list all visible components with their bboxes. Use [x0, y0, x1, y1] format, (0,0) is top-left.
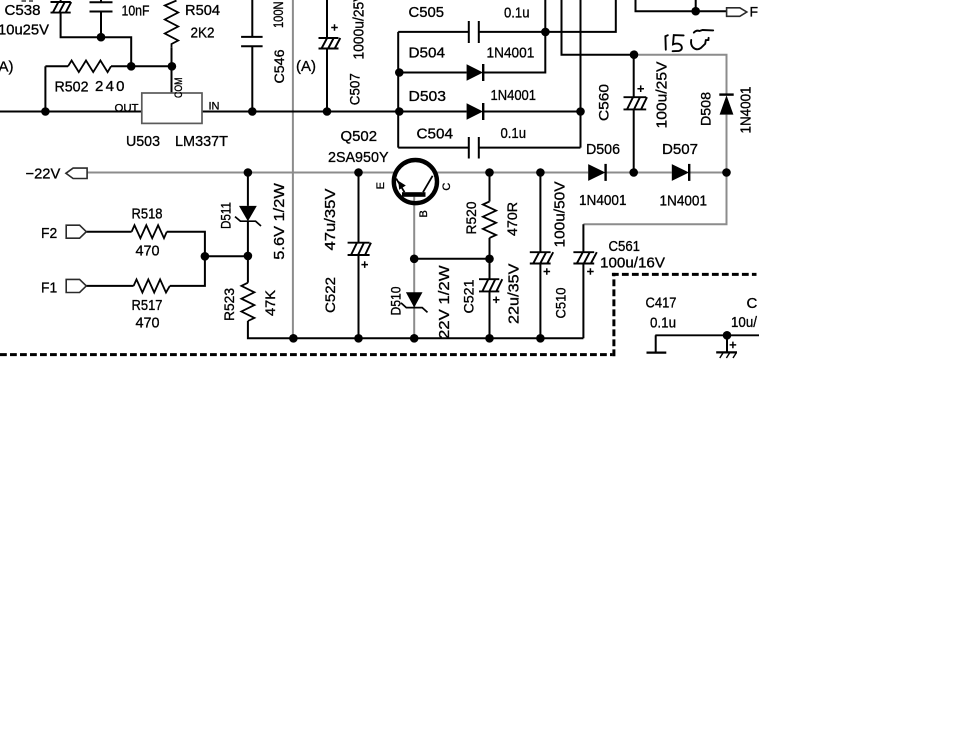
svg-text:C538: C538 — [5, 2, 41, 19]
svg-text:10u25V: 10u25V — [0, 22, 49, 39]
svg-text:10nF: 10nF — [122, 3, 150, 20]
svg-text:22V 1/2W: 22V 1/2W — [436, 265, 453, 339]
svg-text:Q502: Q502 — [341, 128, 378, 145]
svg-text:C: C — [441, 183, 453, 191]
svg-text:100u/16V: 100u/16V — [600, 255, 665, 272]
svg-text:D510: D510 — [387, 286, 403, 315]
svg-text:R502: R502 — [55, 79, 89, 96]
svg-text:C505: C505 — [409, 4, 445, 21]
svg-text:D503: D503 — [409, 88, 447, 105]
svg-text:F: F — [750, 4, 759, 20]
svg-text:470: 470 — [136, 315, 160, 332]
svg-text:1000u/25V: 1000u/25V — [351, 0, 368, 60]
svg-text:1N4001: 1N4001 — [491, 87, 537, 104]
svg-text:D511: D511 — [217, 202, 233, 229]
svg-text:E: E — [375, 182, 387, 189]
svg-text:R504: R504 — [185, 2, 220, 19]
svg-text:100u/25V: 100u/25V — [654, 62, 671, 129]
svg-text:100u/50V: 100u/50V — [552, 182, 569, 248]
svg-text:10u/: 10u/ — [731, 314, 758, 331]
svg-text:0.1u: 0.1u — [650, 315, 676, 332]
svg-text:R518: R518 — [132, 206, 163, 223]
svg-text:F1: F1 — [41, 280, 57, 297]
svg-text:−22V: −22V — [26, 166, 61, 183]
svg-text:C546: C546 — [271, 49, 287, 83]
svg-text:1N4001: 1N4001 — [660, 193, 708, 210]
svg-text:OUT: OUT — [115, 103, 139, 115]
svg-text:22u/35V: 22u/35V — [506, 264, 523, 325]
svg-text:C510: C510 — [553, 287, 569, 318]
svg-text:(A): (A) — [296, 58, 316, 75]
svg-text:IN: IN — [209, 101, 220, 113]
svg-text:470: 470 — [136, 243, 160, 260]
svg-text:0.1u: 0.1u — [504, 5, 530, 22]
svg-text:B: B — [418, 210, 430, 217]
svg-text:47K: 47K — [262, 289, 278, 316]
svg-text:470R: 470R — [504, 202, 520, 236]
svg-text:5.6V 1/2W: 5.6V 1/2W — [271, 182, 288, 259]
svg-text:U503: U503 — [126, 133, 160, 150]
svg-text:C507: C507 — [347, 73, 363, 105]
svg-text:1N4001: 1N4001 — [487, 45, 535, 62]
svg-text:R517: R517 — [132, 297, 163, 314]
svg-text:C521: C521 — [461, 279, 477, 313]
svg-text:D508: D508 — [698, 92, 714, 126]
svg-text:C561: C561 — [609, 238, 641, 255]
svg-text:R520: R520 — [463, 201, 479, 234]
svg-text:C522: C522 — [322, 277, 338, 313]
svg-text:COM: COM — [173, 78, 185, 99]
svg-text:D504: D504 — [409, 45, 446, 62]
svg-text:C417: C417 — [646, 295, 677, 312]
svg-text:1N4001: 1N4001 — [579, 192, 627, 209]
svg-text:R523: R523 — [221, 288, 237, 321]
svg-text:D506: D506 — [586, 141, 620, 158]
svg-text:47u/35V: 47u/35V — [322, 189, 339, 251]
svg-text:2SA950Y: 2SA950Y — [328, 149, 389, 166]
svg-text:(A): (A) — [0, 59, 14, 76]
svg-text:240: 240 — [95, 78, 125, 95]
svg-text:C504: C504 — [417, 126, 454, 143]
svg-text:2K2: 2K2 — [191, 25, 215, 42]
svg-text:C: C — [747, 295, 758, 312]
svg-text:1N4001: 1N4001 — [738, 87, 755, 134]
svg-text:100N: 100N — [270, 2, 286, 29]
svg-text:LM337T: LM337T — [175, 133, 228, 150]
svg-text:F2: F2 — [41, 225, 57, 242]
svg-text:D507: D507 — [662, 141, 698, 158]
svg-text:C560: C560 — [596, 84, 612, 121]
svg-text:0.1u: 0.1u — [501, 125, 527, 142]
